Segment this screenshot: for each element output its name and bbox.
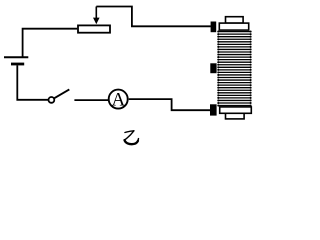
coil terminal tab middle <box>210 63 216 73</box>
wire battery bottom to switch <box>17 65 48 99</box>
solenoid coil top cap <box>219 23 248 30</box>
solenoid coil winding end bulges right <box>250 31 252 107</box>
switch S1 lever (open) <box>54 89 69 98</box>
solenoid coil top knob <box>226 17 244 23</box>
wire wiper to coil top tab <box>96 7 211 27</box>
rheostat wiper arrow shaft <box>95 7 97 19</box>
rheostat R1 body <box>78 25 110 32</box>
wire switch to ammeter <box>74 99 108 101</box>
switch S1 pivot circle <box>49 97 55 103</box>
solenoid coil bottom knob <box>226 113 245 119</box>
coil terminal tab top <box>211 22 217 33</box>
solenoid coil winding end bulges left <box>217 31 219 107</box>
solenoid coil bottom cap <box>220 107 252 113</box>
rheostat wiper arrowhead <box>93 18 100 25</box>
label 乙 <box>125 131 139 144</box>
solenoid coil windings <box>218 32 251 106</box>
ammeter A1 circle <box>109 90 128 109</box>
battery B1 long plate <box>4 56 28 58</box>
battery B1 short plate <box>11 63 24 66</box>
coil terminal tab bottom <box>210 104 217 115</box>
svg-text:A: A <box>112 89 126 110</box>
wire ammeter to coil bottom tab <box>129 99 210 110</box>
wire battery top to rheostat <box>23 29 78 57</box>
